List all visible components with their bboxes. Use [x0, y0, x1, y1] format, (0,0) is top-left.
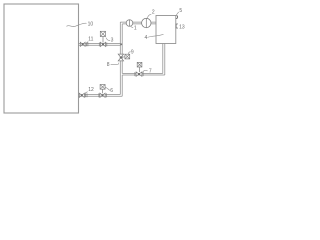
leader to label 6 [105, 87, 110, 90]
svg-text:10: 10 [88, 21, 94, 27]
actuator stem of valve 8 [122, 56, 125, 58]
leader to label 1 [130, 26, 133, 28]
flange ticks after valve 12 [85, 93, 87, 97]
valve 12 (globe valve on bottom outlet) [79, 93, 84, 97]
valve 7 (actuated globe valve on right branch) [134, 72, 136, 76]
valve 3 (actuated globe valve on top outlet) [98, 42, 100, 46]
wire: top horizontal main pipe to small vessel (double line) [120, 21, 156, 23]
actuator square of valve 6 [100, 85, 105, 90]
leader to label 3 [106, 38, 110, 41]
actuator stem of valve 6 [102, 89, 104, 93]
svg-text:11: 11 [88, 37, 93, 43]
svg-text:1: 1 [134, 25, 137, 31]
svg-text:5: 5 [179, 8, 182, 14]
leader line to label 10 [67, 23, 87, 26]
actuator square of valve 3 [100, 31, 105, 36]
leader to label 2 [147, 14, 151, 18]
leader to label 4 [148, 35, 164, 38]
svg-text:3: 3 [111, 37, 114, 43]
pump 1 (circle with vertical line) [126, 20, 133, 27]
wire: bottom outlet pipe from tank (double line) [79, 94, 121, 96]
svg-text:12: 12 [88, 87, 94, 93]
wire: vessel down pipe (double line) [162, 44, 164, 74]
svg-text:13: 13 [179, 24, 185, 30]
svg-text:7: 7 [149, 69, 152, 75]
leader to label 7 [143, 71, 148, 73]
nozzle mark 5 on vessel corner [176, 15, 178, 18]
svg-text:4: 4 [145, 35, 148, 41]
leader to label 11 [86, 41, 88, 43]
valve 8 (globe valve on vertical manifold) [118, 54, 123, 61]
svg-text:2: 2 [152, 9, 155, 15]
pump 2 (circle with vertical line) [142, 18, 151, 27]
actuator stem of valve 7 [138, 67, 140, 72]
actuator square 9 of valve 8 [125, 54, 130, 59]
valve 6 (actuated globe valve on bottom outlet) [98, 93, 100, 97]
svg-text:9: 9 [131, 50, 134, 56]
bracket mark 13 on vessel wall [176, 24, 178, 28]
svg-text:8: 8 [107, 62, 110, 68]
svg-text:6: 6 [110, 88, 113, 94]
leader to label 9 [128, 52, 130, 54]
leader to label 8 [111, 63, 119, 65]
wire: vertical manifold pipe (double line) [119, 22, 121, 94]
actuator square of valve 7 [137, 62, 142, 67]
leader to label 5 [176, 12, 178, 15]
vessel 4 (small tank) [156, 16, 176, 44]
tank 10 (large vessel) [4, 4, 79, 113]
actuator stem of valve 3 [102, 37, 104, 43]
leader to label 12 [84, 92, 88, 94]
wire: top outlet pipe from tank (double line) [79, 42, 121, 44]
wire: right branch pipe (double line) [122, 72, 163, 74]
flange ticks after valve 11 [85, 42, 87, 46]
node: junction of top outlet with manifold [120, 43, 122, 45]
valve 11 (globe valve on top outlet) [80, 42, 85, 46]
